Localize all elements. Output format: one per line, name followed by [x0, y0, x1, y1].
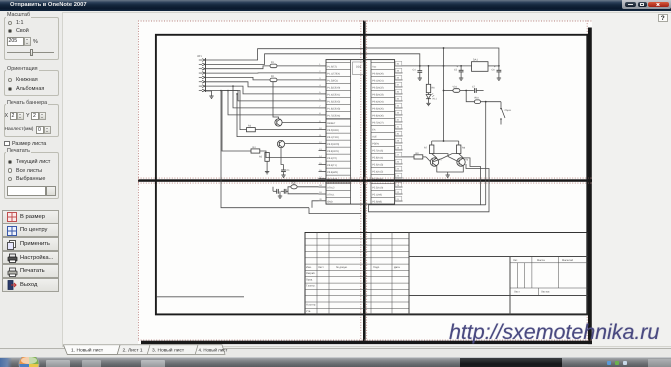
- svg-text:ZQ1: ZQ1: [291, 181, 296, 184]
- svg-text:P1.7(CEX4): P1.7(CEX4): [327, 114, 340, 117]
- wire pin3 to P1.0 via R1: [206, 65, 271, 68]
- svg-text:P1.5(CEX2): P1.5(CEX2): [327, 100, 340, 103]
- wire reset node down: [466, 90, 474, 101]
- ground left transistors: [265, 171, 269, 173]
- wire R4 to P3.4: [260, 151, 319, 158]
- svg-text:Т.контр.: Т.контр.: [306, 284, 316, 287]
- wire long vertical to bottom rail: [221, 90, 309, 207]
- page split horizontal shadow: [138, 179, 592, 182]
- wire VT2 output loop: [463, 157, 480, 204]
- resistor R9 (base feed): [403, 151, 431, 161]
- wire GND pin: [312, 200, 319, 207]
- svg-text:Масштаб: Масштаб: [562, 259, 574, 262]
- drawing frame: [156, 34, 587, 314]
- MCU DD1 (AT89 microcontroller): [319, 59, 403, 204]
- svg-text:DD1: DD1: [356, 65, 362, 68]
- resistor R4 (base Q2): [251, 145, 260, 152]
- svg-text:Лист: Лист: [318, 265, 324, 268]
- paper sheet (4-page banner): [138, 20, 592, 344]
- svg-text:Масса: Масса: [537, 259, 545, 262]
- wire R10 to switch: [481, 100, 502, 102]
- wire caps junction: [272, 186, 274, 191]
- resistor R6 (LED): [426, 65, 435, 92]
- resistor R3 (base Q1): [247, 124, 256, 131]
- wire top rail 1 right page: [366, 48, 499, 66]
- wire crystal to XTAL2: [298, 185, 319, 187]
- resistor R7: [424, 141, 434, 154]
- wire R3 left: [221, 90, 247, 129]
- svg-text:P3.3(INT1): P3.3(INT1): [327, 150, 339, 153]
- ground crystal: [278, 196, 282, 198]
- transistor Q1: [275, 118, 282, 125]
- page split vertical shadow: [363, 20, 366, 341]
- LED HL1: [426, 92, 437, 105]
- wire drop vertical c: [237, 93, 319, 136]
- switch SB1 (Сброс): [500, 101, 512, 124]
- wire emitters to ground: [437, 166, 464, 172]
- svg-text:P2.3(A11): P2.3(A11): [372, 177, 383, 180]
- wire pin8 to P1.5: [206, 90, 319, 100]
- ground under connector: [209, 92, 213, 98]
- svg-text:Сброс: Сброс: [505, 109, 513, 112]
- svg-text:Разраб.: Разраб.: [306, 272, 316, 275]
- svg-text:P3.4(T0): P3.4(T0): [327, 157, 337, 160]
- svg-text:P1.4(CEX1): P1.4(CEX1): [327, 93, 340, 96]
- svg-text:Н.контр.: Н.контр.: [306, 303, 316, 306]
- wire R3 to MCU P3.0: [255, 128, 318, 130]
- wire to C7: [460, 89, 466, 91]
- svg-text:P2.6(A14): P2.6(A14): [372, 156, 383, 159]
- svg-text:EA: EA: [372, 128, 376, 131]
- transistor Q2: [277, 140, 284, 147]
- wire Q2 emitter down: [281, 147, 284, 164]
- resistor R10: [474, 96, 480, 103]
- svg-text:P2.7(A15): P2.7(A15): [372, 149, 383, 152]
- capacitor C6: [492, 65, 502, 80]
- wire switch rail down: [485, 101, 487, 204]
- svg-text:P0.5(AD5): P0.5(AD5): [372, 107, 384, 110]
- wire flip-flop supply vertical: [443, 48, 445, 141]
- capacitor C5: [454, 65, 464, 80]
- resistor R8: [457, 141, 466, 154]
- wire bottom rail second: [309, 207, 361, 213]
- wire pin6 to P1.3: [206, 81, 319, 86]
- svg-text:Изм.: Изм.: [306, 265, 312, 268]
- wire R5 down to ground: [266, 161, 268, 171]
- svg-text:DA1: DA1: [473, 58, 478, 61]
- svg-text:P1.3(CEX0): P1.3(CEX0): [327, 86, 340, 89]
- svg-text:P1.1(T2EX): P1.1(T2EX): [327, 72, 340, 75]
- wire R1 out: [277, 64, 319, 66]
- wire regulator output: [488, 64, 499, 66]
- capacitor C7: [466, 85, 483, 92]
- capacitor C4: [413, 68, 423, 80]
- svg-text:P3.0(RXD): P3.0(RXD): [327, 129, 339, 132]
- wire Vcc power rail: [403, 64, 472, 66]
- transistor VT2: [457, 157, 469, 165]
- svg-text:VD1: VD1: [453, 85, 458, 88]
- svg-text:XTAL2: XTAL2: [327, 186, 335, 189]
- svg-text:2. Лист 1: 2. Лист 1: [123, 348, 143, 354]
- capacitor C2: [273, 188, 278, 193]
- wire Q1 collector to RESET: [282, 121, 319, 123]
- svg-text:ALE: ALE: [372, 135, 377, 138]
- svg-text:P0.6(AD6): P0.6(AD6): [372, 114, 384, 117]
- wire connector to ground rail: [206, 91, 212, 92]
- svg-text:P1.0(T2): P1.0(T2): [327, 65, 337, 68]
- svg-text:Пров.: Пров.: [306, 278, 313, 281]
- capacitor C3: [281, 188, 288, 193]
- crystal ZQ1: [291, 181, 297, 188]
- svg-text:P0.1(AD1): P0.1(AD1): [372, 79, 384, 82]
- wire Q2 collector to P3.2: [285, 142, 319, 144]
- frame inner line: [157, 295, 245, 297]
- svg-text:GND: GND: [327, 200, 333, 203]
- svg-text:Дата: Дата: [394, 265, 400, 268]
- wire top rail 2 right page: [366, 53, 420, 70]
- svg-text:P3.6(WR): P3.6(WR): [327, 171, 338, 174]
- svg-text:P2.0(A8): P2.0(A8): [372, 200, 382, 203]
- wire drop vertical b: [222, 90, 251, 151]
- svg-text:Лист: Лист: [514, 290, 520, 293]
- voltage regulator DA1: [472, 58, 489, 71]
- svg-text:P2.2(A10): P2.2(A10): [372, 186, 383, 189]
- wire lower return 2: [369, 164, 490, 212]
- print margin dotted lines: [138, 20, 592, 340]
- svg-text:P0.2(AD2): P0.2(AD2): [372, 86, 384, 89]
- wire top bus 2 from pin2: [206, 53, 364, 64]
- wire pin4 to P1.1: [206, 71, 319, 73]
- svg-text:XTAL1: XTAL1: [327, 193, 335, 196]
- bottom page edge shadow: [141, 340, 592, 343]
- wire top bus 1 from pin1: [206, 48, 364, 59]
- wire crystal to XTAL1: [288, 186, 319, 193]
- resistor R2: [270, 75, 277, 82]
- svg-text:1. Новый лист: 1. Новый лист: [71, 347, 104, 354]
- svg-text:3. Новый лист: 3. Новый лист: [152, 347, 185, 354]
- transistor VT1: [430, 157, 442, 165]
- svg-text:P0.7(AD7): P0.7(AD7): [372, 121, 384, 124]
- wire VT1 collector: [432, 153, 437, 157]
- svg-text:P3.7(RD): P3.7(RD): [327, 178, 337, 181]
- wire lower return 1: [369, 203, 486, 206]
- wire R2 node down to Q1: [273, 81, 279, 118]
- right page edge shadow: [588, 27, 592, 344]
- svg-text:RESET: RESET: [327, 122, 336, 125]
- wire branch to P1.6: [233, 86, 319, 108]
- svg-text:Лит.: Лит.: [513, 259, 518, 262]
- svg-text:P3.2(INT0): P3.2(INT0): [327, 143, 339, 146]
- svg-text:P0.3(AD3): P0.3(AD3): [372, 93, 384, 96]
- wire cross coupling 2: [433, 153, 459, 161]
- title block (основная надпись): [305, 232, 588, 314]
- wire cross coupling 1: [432, 153, 459, 161]
- wire VT2 collector: [459, 153, 464, 157]
- svg-text:P3.5(T1): P3.5(T1): [327, 164, 337, 167]
- svg-text:P2.4(A12): P2.4(A12): [372, 170, 383, 173]
- wire R2 out: [277, 78, 319, 80]
- svg-text:Утв.: Утв.: [306, 309, 311, 312]
- svg-text:P3.1(TXD): P3.1(TXD): [327, 136, 339, 139]
- svg-text:HL1: HL1: [433, 97, 438, 100]
- svg-text:№ докум.: № докум.: [336, 265, 348, 268]
- diode VD1: [444, 85, 460, 92]
- svg-text:Подп.: Подп.: [373, 265, 380, 268]
- svg-text:R10: R10: [475, 96, 480, 99]
- svg-text:VT2: VT2: [464, 158, 469, 161]
- svg-text:P0.4(AD4): P0.4(AD4): [372, 100, 384, 103]
- svg-text:Листов: Листов: [541, 290, 550, 293]
- svg-text:PSEN: PSEN: [372, 142, 379, 145]
- svg-text:P0.0(AD0): P0.0(AD0): [372, 72, 384, 75]
- svg-text:P1.6(CEX3): P1.6(CEX3): [327, 107, 340, 110]
- resistor R5: [259, 152, 269, 161]
- svg-text:P1.2(ECI): P1.2(ECI): [327, 79, 338, 82]
- connector XP1: [197, 55, 206, 92]
- svg-text:P2.1(A9): P2.1(A9): [372, 193, 382, 196]
- wire pin7 to P1.4: [206, 86, 319, 94]
- wire flip-flop top rail: [432, 140, 459, 142]
- wire branch to P1.7: [228, 90, 319, 114]
- svg-text:XP1: XP1: [197, 55, 202, 58]
- capacitor C1: [281, 164, 290, 177]
- svg-text:4. Новый лист: 4. Новый лист: [199, 348, 228, 353]
- svg-text:P2.5(A13): P2.5(A13): [372, 163, 383, 166]
- wire pin5 to P1.2 via R2: [206, 77, 271, 80]
- resistor R1: [270, 61, 277, 68]
